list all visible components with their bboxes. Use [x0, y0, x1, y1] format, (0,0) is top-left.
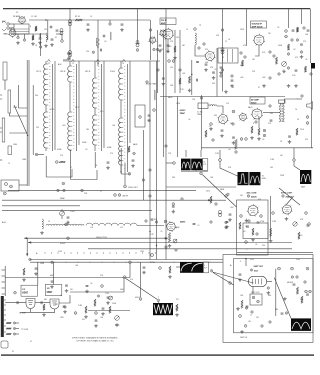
node jack ring: [5, 183, 8, 186]
svg-text:L5: L5: [186, 29, 188, 31]
svg-text:.05: .05: [188, 119, 190, 121]
wire left terminal rail: [4, 266, 6, 296]
node TP26: [123, 276, 126, 279]
wire W20: [16, 322, 19, 324]
tube V8 sync: [282, 204, 293, 215]
wire W2 drop: [200, 150, 202, 157]
wire video rail 1: [8, 189, 196, 191]
node TP34: [210, 270, 212, 272]
waveform photo W5: [300, 170, 311, 184]
svg-text:DEFLECTION: DEFLECTION: [96, 237, 107, 239]
potentiometer contrast pot: [60, 211, 65, 216]
capacitor C16: [132, 160, 135, 161]
svg-text:180: 180: [86, 129, 89, 131]
svg-text:330: 330: [172, 177, 175, 179]
wire sep out b: [70, 279, 124, 292]
node TP41: [13, 333, 15, 335]
svg-text:.02: .02: [293, 49, 295, 51]
tube V2 4BZ7: [162, 28, 174, 40]
resistor R56: [205, 130, 207, 137]
capacitor C8: [101, 49, 102, 52]
node TP18: [263, 134, 266, 137]
tube V10 vert output: [248, 276, 266, 286]
tube V1 RF amp: [18, 16, 27, 24]
node TP20: [220, 75, 222, 77]
wire sync feed rail: [5, 277, 130, 279]
svg-text:6AU6: 6AU6: [251, 196, 257, 199]
resistor R63: [298, 232, 300, 239]
ground C34 gnd: [162, 82, 166, 85]
wire lower right rail: [237, 251, 313, 253]
svg-text:PIX IF: PIX IF: [161, 20, 168, 22]
resistor R70: [176, 304, 178, 311]
capacitor C41a: [295, 70, 298, 71]
ground C68 gnd: [85, 290, 89, 293]
svg-text:6AU6: 6AU6: [133, 143, 137, 146]
wire IF top lead 46: [45, 61, 47, 64]
wire W10: [11, 28, 46, 34]
wire IF line a: [54, 61, 56, 150]
ground C67 gnd: [65, 289, 69, 292]
wire tuner drop a: [40, 33, 42, 56]
node TP7: [81, 189, 84, 192]
wire diag to sync: [279, 188, 300, 205]
resistor Rt3: [6, 333, 11, 335]
svg-text:4BZ7: 4BZ7: [161, 22, 167, 25]
wire video rail 3: [2, 205, 80, 207]
label box W1: [203, 159, 208, 171]
junction J2: [120, 171, 121, 172]
wire delay out: [137, 225, 164, 227]
node shield coil tp: [139, 116, 142, 119]
wire disc left edge: [216, 48, 218, 97]
ground sync pot gnd: [115, 323, 119, 326]
ground R31 gnd: [168, 244, 172, 247]
svg-text:.05: .05: [85, 149, 87, 151]
node TP77: [149, 169, 151, 171]
wire V10 to T7: [252, 287, 254, 294]
wire W17: [227, 49, 229, 62]
ground C15 gnd: [106, 166, 110, 169]
ground vert gnd: [236, 307, 240, 310]
svg-text:47: 47: [30, 341, 32, 343]
node TP11c: [146, 81, 148, 83]
node TP7b: [63, 189, 65, 191]
node TP7a: [57, 189, 59, 191]
box V9a label box: [21, 285, 38, 296]
node TP67: [29, 258, 31, 260]
node TP55: [198, 47, 200, 49]
node TP11: [296, 39, 298, 41]
wire snd B+ 2: [301, 8, 303, 24]
capacitor C69: [107, 297, 110, 298]
ground TP2 gnd: [67, 57, 71, 60]
inductor L householding: [42, 219, 43, 229]
svg-text:T2: T2: [72, 63, 74, 65]
capacitor C43: [221, 130, 224, 131]
wire det lead: [124, 163, 126, 185]
node TP54: [203, 43, 205, 45]
speaker SP1: [307, 102, 313, 110]
wire snd col1: [157, 30, 159, 93]
wire IF AGC rail: [63, 60, 160, 62]
node TP32: [305, 212, 308, 215]
wire mixer out drop: [150, 20, 152, 60]
box T7 vert trans: [250, 294, 262, 305]
svg-text:HOLD: HOLD: [135, 297, 141, 299]
capacitor C66: [51, 281, 54, 282]
wire terminal tick 270: [2, 269, 6, 271]
IF transformer T2 2nd video IF: [68, 59, 77, 151]
node TP15: [194, 28, 197, 31]
svg-text:.01: .01: [60, 295, 62, 297]
svg-text:6SN7: 6SN7: [47, 292, 53, 294]
svg-text:A PHOTOFACT STANDARD NOTATION: A PHOTOFACT STANDARD NOTATION SCHEMATIC: [72, 337, 118, 340]
ground C43 gnd: [220, 134, 224, 137]
ground C3 gnd: [38, 41, 42, 44]
svg-text:45.75: 45.75: [75, 107, 79, 109]
wire W8 lead: [176, 266, 180, 268]
svg-text:HORIZ: HORIZ: [60, 243, 65, 245]
wire T2 return U: [71, 150, 97, 180]
resistor R81: [296, 287, 298, 294]
svg-text:OSC: OSC: [4, 34, 9, 36]
wire W4: [14, 31, 29, 33]
wire W15: [61, 216, 63, 219]
wire right edge rail 2: [311, 68, 313, 148]
resistor R60: [239, 222, 241, 229]
ground snd gnd3: [287, 84, 291, 87]
capacitor C38: [292, 30, 295, 31]
capacitor C3: [39, 38, 42, 39]
node TP52: [109, 23, 111, 25]
svg-text:B+: B+: [36, 253, 38, 255]
capacitor C60a: [17, 301, 18, 304]
svg-text:T5: T5: [225, 41, 227, 43]
svg-text:TO YOKE: TO YOKE: [21, 329, 28, 331]
svg-text:.05: .05: [118, 161, 120, 163]
node TP68: [51, 261, 53, 263]
node TP21: [210, 123, 213, 126]
wire sync lower rail: [88, 310, 130, 312]
node TP1: [17, 36, 19, 38]
wire IF line d: [129, 61, 131, 143]
edge tick 2: [0, 128, 2, 132]
ground R62 gnd: [269, 239, 273, 242]
node TP25: [293, 159, 296, 162]
node TP10: [291, 39, 293, 41]
wire video amp col: [201, 95, 203, 150]
wire W7: [24, 34, 26, 39]
svg-text:.05: .05: [255, 244, 257, 246]
svg-text:2.2M: 2.2M: [78, 305, 82, 307]
svg-text:.02: .02: [277, 27, 279, 29]
wire V5 cathode lead: [258, 117, 260, 129]
node TP61: [255, 121, 257, 123]
svg-text:.02: .02: [262, 139, 264, 141]
wire T1 return U: [46, 156, 72, 177]
wire V8 label lead: [286, 196, 293, 205]
feedthrough filter FL2: [68, 51, 72, 57]
ground R61 gnd: [251, 238, 255, 241]
capacitor C71: [293, 284, 296, 285]
waveform photo W3: [238, 172, 249, 185]
node TP8b: [118, 194, 121, 197]
node TP70: [267, 287, 269, 289]
tube V6 video amp: [218, 113, 229, 124]
node TP71: [304, 281, 306, 283]
wire sync feed vert: [270, 196, 272, 239]
resistor R44: [241, 60, 243, 66]
tube V osc: [148, 37, 156, 45]
potentiometer volume control: [282, 62, 287, 67]
ground R71 gnd: [168, 275, 172, 278]
node TP29: [256, 233, 258, 235]
ground C61 gnd: [142, 271, 146, 274]
svg-text:220: 220: [205, 49, 208, 51]
wire right edge drop: [310, 9, 312, 64]
ground C7 gnd: [120, 28, 124, 31]
ground snd gnd2: [262, 84, 266, 87]
capacitor C4: [51, 39, 54, 40]
resistor R41: [174, 46, 176, 52]
svg-text:470: 470: [130, 279, 133, 281]
node TP43: [257, 300, 260, 303]
node tuner tp a: [40, 46, 42, 48]
wire drop arrow line: [26, 238, 28, 255]
junction J3: [191, 74, 192, 75]
label box W8: [203, 262, 208, 273]
ground C4 gnd: [50, 43, 54, 46]
svg-text:6AQ5: 6AQ5: [251, 101, 257, 104]
wire diag to AGC: [202, 175, 236, 208]
svg-text:470: 470: [305, 139, 308, 141]
node TP14b: [210, 221, 212, 223]
box vert section inner box: [234, 259, 313, 333]
resistor R31: [168, 233, 170, 242]
node V8 mark: [282, 195, 284, 197]
node TP2: [23, 39, 25, 41]
svg-text:220: 220: [36, 127, 39, 129]
node TP2: [67, 52, 70, 55]
ground C6 gnd: [86, 28, 90, 31]
node TP19: [232, 123, 234, 125]
wire video rail 4: [2, 210, 152, 212]
node TP31: [272, 212, 275, 215]
wire V2 out drop: [167, 39, 169, 52]
svg-text:.005: .005: [62, 125, 65, 127]
node TP57: [300, 51, 302, 53]
fuse box: [1, 341, 8, 348]
ground C62 gnd: [101, 312, 105, 315]
svg-text:L3: L3: [90, 16, 92, 18]
svg-text:.005: .005: [168, 46, 171, 48]
feedthrough filter FL1: [68, 20, 72, 26]
svg-text:L9: L9: [48, 221, 50, 223]
feedthrough filter FL5: [218, 210, 222, 216]
svg-text:PIN 4: PIN 4: [250, 259, 254, 261]
wire sync drop right: [140, 262, 142, 297]
capacitor C35a: [205, 64, 208, 65]
wire W1 lead: [166, 162, 173, 164]
waveform photo W1: [181, 159, 191, 171]
wire terminal tick 294: [2, 293, 6, 295]
node TP18: [157, 69, 159, 71]
box shield coil box: [135, 105, 145, 127]
node phono TP: [3, 192, 6, 195]
svg-text:6AH6: 6AH6: [175, 226, 179, 229]
ground L2 gnd: [44, 44, 48, 47]
arrowhead AR2: [28, 241, 31, 243]
arrowhead agc: [208, 199, 211, 201]
wire snd B+ 0: [246, 8, 248, 46]
ground agc gnd1: [245, 219, 249, 222]
node W6 tp: [157, 299, 160, 302]
wire stub lead: [4, 80, 6, 90]
wire tuner drop b: [47, 20, 49, 40]
wire W3: [14, 28, 29, 30]
wire sweep line 3: [88, 248, 292, 250]
svg-text:T6: T6: [295, 109, 297, 111]
svg-text:2.2M: 2.2M: [272, 221, 276, 223]
inductor L trap: [208, 104, 217, 106]
node TP34: [129, 261, 132, 264]
wire V9b B+ drop: [53, 262, 55, 284]
box discriminator can: [218, 48, 238, 63]
node test point osc: [61, 40, 64, 43]
wire sync rail 2: [30, 261, 223, 263]
svg-text:VIDEO DET: VIDEO DET: [128, 187, 139, 189]
node TP50: [285, 312, 287, 314]
capacitor C50b: [257, 222, 260, 223]
ground T7 gnd: [267, 291, 271, 294]
svg-text:120: 120: [170, 67, 173, 69]
svg-text:1.2M: 1.2M: [270, 159, 274, 161]
svg-text:TRAP: TRAP: [180, 112, 186, 115]
capacitor C31: [196, 62, 199, 63]
node TP14: [164, 220, 167, 223]
ground C69 gnd: [106, 301, 110, 304]
node TP66: [215, 203, 217, 205]
svg-text:6CB6: 6CB6: [107, 147, 111, 149]
svg-text:6CB6: 6CB6: [57, 149, 61, 151]
wire sync input wire: [5, 302, 26, 304]
svg-text:R5 1K: R5 1K: [75, 16, 81, 18]
waveform photo W4: [249, 172, 260, 185]
capacitor C TP9: [172, 206, 175, 207]
svg-text:SOUND IF: SOUND IF: [252, 23, 263, 25]
svg-text:680: 680: [275, 309, 278, 311]
svg-text:47: 47: [258, 87, 260, 89]
node TP33: [308, 223, 311, 226]
svg-text:500: 500: [270, 113, 273, 115]
wire W16: [222, 49, 224, 62]
ground snd gnd4: [294, 84, 298, 87]
box V9b label box: [45, 285, 62, 296]
svg-text:.05: .05: [104, 41, 106, 43]
wire T4 bottom lead: [121, 148, 130, 174]
arrowhead right: [165, 237, 168, 239]
node TP33: [136, 49, 139, 52]
svg-text:4.5MC: 4.5MC: [180, 109, 186, 112]
node TP53: [50, 26, 52, 28]
capacitor C68: [86, 286, 89, 287]
node TP23: [173, 162, 176, 165]
svg-text:VERT OUT: VERT OUT: [251, 292, 259, 294]
arrowhead down: [26, 254, 28, 257]
balun strip 2: [2, 118, 5, 142]
node TP42: [252, 296, 255, 299]
wire W6: [17, 34, 19, 36]
feedthrough filter FL4: [135, 41, 139, 47]
wire B+ drop 1: [69, 8, 71, 60]
resistor R48: [304, 66, 306, 72]
potentiometer hold pot: [109, 296, 113, 300]
node TP73: [149, 195, 151, 197]
capacitor C5: [56, 30, 59, 31]
node TP3: [92, 51, 94, 53]
tube V3 6T8 sound det: [205, 50, 216, 61]
node TP36: [74, 312, 77, 315]
node TP24: [200, 97, 202, 99]
capacitor C36: [220, 67, 223, 68]
potentiometer sync pot: [115, 316, 120, 321]
node TP10: [65, 223, 68, 226]
node TP4: [56, 161, 59, 164]
ground V9a gnd: [63, 310, 67, 313]
wire pointer to vert tube: [213, 272, 254, 283]
edge tick 1: [0, 95, 2, 99]
svg-text:L12: L12: [226, 103, 229, 105]
inductor L sound takeoff: [195, 33, 196, 45]
wire interconnect 4: [165, 9, 167, 260]
capacitor C73: [306, 294, 309, 295]
node TP13: [221, 29, 223, 31]
ground ht gnd: [283, 297, 287, 300]
node yoke letter: [67, 237, 70, 240]
wire IF line b: [78, 61, 80, 145]
svg-text:.001: .001: [75, 265, 78, 267]
diode CR1: [97, 38, 100, 46]
capacitor C65: [63, 306, 66, 307]
terminal strip dark: [1, 296, 4, 337]
ground R75 gnd: [42, 313, 46, 316]
node t176: [175, 249, 177, 251]
capacitor C15: [107, 162, 110, 163]
wire W19: [129, 264, 131, 278]
wire RF to mixer: [29, 19, 150, 21]
node TP16: [306, 122, 309, 125]
svg-text:6AQ5: 6AQ5: [248, 106, 253, 109]
node TP17: [263, 129, 266, 132]
tube V2b: [159, 30, 167, 38]
svg-text:.01: .01: [228, 39, 230, 41]
wire terminal tick 276: [2, 275, 6, 277]
wire snd col2: [162, 36, 164, 93]
wire interconnect 1: [142, 130, 144, 200]
node T4 out: [128, 173, 131, 176]
resistor R74: [23, 268, 25, 275]
capacitor C50: [246, 226, 249, 227]
wire long vertical 1: [26, 60, 28, 186]
svg-text:VOL: VOL: [262, 52, 266, 54]
wire balun lead 2: [9, 132, 27, 134]
wire interconnect 2: [149, 61, 151, 260]
svg-text:T5: T5: [222, 57, 224, 59]
svg-text:300: 300: [35, 95, 38, 97]
node TP7: [273, 55, 275, 57]
ground C35a gnd: [204, 68, 208, 71]
